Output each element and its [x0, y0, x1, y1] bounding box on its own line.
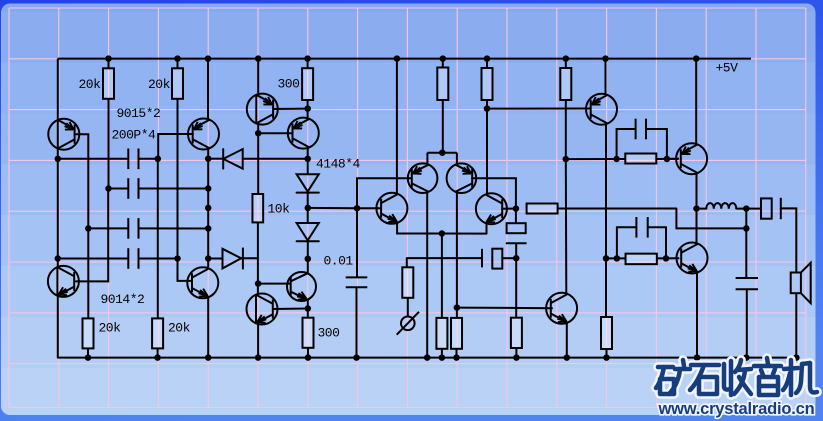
resistor R15 20k [83, 318, 94, 348]
node row1 right [155, 156, 162, 163]
capacitor C3 200P [127, 218, 129, 239]
wire bottom ground rail [58, 357, 800, 359]
wire Q10 emitter to rail [696, 272, 698, 357]
inductor L1 [697, 208, 707, 210]
wire Q1 base right and down [75, 134, 89, 228]
node output Q6 [693, 205, 700, 212]
wire Q12 base corner [178, 259, 191, 281]
wire x357 down to C001 [356, 208, 358, 277]
transistor Q6 9015 [676, 143, 707, 174]
wire apex left drop [426, 153, 428, 165]
wire Q3 collector down [257, 123, 259, 194]
transistor Q9 npn [546, 293, 577, 324]
wire R2 bottom to cap row4 [177, 99, 179, 259]
wire R4 top lead [442, 59, 444, 68]
wire QA collector down to rail [426, 192, 428, 357]
capacitor C11 output polarized [761, 198, 772, 218]
wire R6 top lead [565, 59, 567, 68]
wire output cap lead [746, 208, 761, 210]
wire R15 to rail [87, 348, 89, 357]
node Q9 rail [564, 354, 571, 361]
capacitor C1 200P [127, 149, 129, 170]
node R5 bottom node [484, 105, 491, 112]
wire node to C6 [515, 209, 517, 224]
wire cap row1 right [139, 158, 158, 160]
node diode chain mid [305, 205, 312, 212]
node top rail R5 [484, 55, 491, 62]
watermark crystalradio [656, 358, 817, 418]
node row1 left [55, 156, 62, 163]
wire x606 down to R14 [605, 258, 607, 317]
wire R5 top lead [486, 59, 488, 68]
wire x487 down to QD [486, 109, 488, 195]
node cap row2 left [105, 185, 112, 192]
wire R16 to rail [157, 348, 159, 357]
node D3 bottom node [305, 256, 312, 263]
wire x397 down to QC [396, 59, 398, 194]
node Q10 rail [694, 354, 701, 361]
resistor R10 [451, 318, 462, 349]
capacitor C7 polarized [481, 249, 483, 268]
wire x108 down to Q11 base corner [76, 189, 108, 282]
wire Rc1 right [657, 158, 679, 160]
speaker SP1 [791, 273, 801, 294]
svg-text:300: 300 [278, 76, 300, 91]
wire Q5 emitter from top [605, 59, 607, 95]
wire QB collector down [456, 192, 458, 307]
wire Q11 emitter to bottom rail corner [57, 296, 59, 358]
wire x516 down to R11 [515, 258, 517, 318]
wire x566 down to Q9 [565, 159, 568, 294]
wire row109 to Q5 base [487, 108, 590, 110]
node R9 rail [439, 354, 446, 361]
wire R10 to rail [456, 349, 458, 358]
capacitor C2 200P [127, 178, 129, 199]
node R17 top node [305, 305, 312, 312]
wire row208 to QC base [357, 207, 381, 209]
wire C5 to rail [356, 287, 358, 357]
node top rail Q5 [602, 55, 609, 62]
wire Q3 base to R3 node [273, 108, 308, 110]
wire C10 to rail [746, 289, 748, 357]
wire Q2 emitter from top rail [207, 59, 209, 120]
transistor QA pnp [408, 163, 438, 193]
wire speaker to rail [795, 293, 797, 357]
wire cap row4 left [58, 258, 129, 260]
wire C6 bottom [515, 243, 517, 258]
node R17 rail [305, 354, 312, 361]
wire output jog down [676, 209, 746, 229]
node C10 rail [743, 354, 750, 361]
wire R9 to rail [441, 349, 443, 358]
node x746 row228 [743, 225, 750, 232]
node QB QD base node [513, 205, 520, 212]
resistor R5 [482, 68, 493, 100]
capacitor C8 loop [617, 129, 636, 159]
wire C7 to node [502, 257, 516, 259]
wire D5 left lead [208, 258, 222, 260]
node top rail x397 [394, 55, 401, 62]
svg-text:10k: 10k [268, 202, 291, 217]
node top rail R4 [440, 55, 447, 62]
wire R3 top lead [307, 59, 309, 69]
resistor R1 20k [103, 68, 114, 99]
resistor R17 300 [303, 318, 314, 348]
node top rail R6 [563, 55, 570, 62]
node R6 row159 [563, 156, 570, 163]
wire QB base corner [472, 178, 516, 208]
diode D3 4148 [297, 223, 319, 240]
wire Q6 base lead [667, 158, 679, 160]
wire Q1 collector down left rail [57, 149, 59, 268]
capacitor C4 200P [127, 248, 129, 269]
svg-text:www.crystalradio.cn: www.crystalradio.cn [657, 400, 814, 418]
transistor QC driver npn [376, 193, 407, 224]
transistor Q2 9015 [188, 119, 219, 150]
wire row159 segment [566, 158, 625, 160]
diode D1 4148 [222, 149, 224, 169]
node top rail R1 [105, 55, 112, 62]
node x516 row258 [513, 255, 520, 262]
svg-text:20k: 20k [79, 77, 102, 92]
wire R6 bottom to row159 [565, 100, 567, 159]
node C5 rail [353, 354, 360, 361]
wire R1 bottom to cap row2 [108, 99, 110, 189]
wire R5 bottom [486, 100, 488, 109]
wire Q13 emitter to rail [257, 324, 259, 358]
node R11 rail [513, 354, 520, 361]
svg-text:+5V: +5V [716, 61, 739, 76]
node cap combo1 left [613, 156, 620, 163]
wire Q6 emitter from top [695, 59, 697, 145]
resistor R9 [436, 318, 447, 349]
resistor R12 [402, 267, 413, 298]
svg-text:200P*4: 200P*4 [112, 128, 157, 143]
node x606 row258 [603, 255, 610, 262]
wire R12 to phase sym [407, 298, 409, 317]
svg-text:20k: 20k [168, 321, 191, 336]
wire cap row2 right [139, 188, 209, 190]
wire cap row4 right [139, 258, 178, 260]
wire x442 down to R9 [441, 234, 443, 318]
wire Q14 base left [258, 283, 291, 285]
resistor R2 20k [172, 68, 183, 99]
node diff apex [439, 149, 446, 156]
transistor Q14 9014 [287, 272, 316, 301]
transistor Q13 9014 [247, 294, 278, 325]
node top rail Q6 [693, 55, 700, 62]
wire R13 right [657, 257, 680, 259]
wire R4 bottom to apex [442, 100, 444, 153]
wire to speaker corner [781, 208, 797, 272]
wire mid row 208 to x357 [308, 207, 357, 209]
wire Q14 emitter down [307, 300, 309, 318]
wire Q6 collector to output node [696, 173, 698, 209]
node R14 rail [603, 354, 610, 361]
diode D5 4148 [223, 249, 242, 269]
wire apex horizontal [427, 152, 457, 154]
transistor Q10 npn [677, 243, 708, 274]
wire cap row1 left [58, 158, 129, 160]
transistor Q5 9015 [586, 94, 617, 125]
wire R11 to rail [515, 348, 517, 358]
wire D3 down to Q14 [307, 241, 309, 273]
resistor R7 10k [252, 194, 263, 222]
wire Q2 base left and down [158, 134, 193, 159]
wire R17 to rail [307, 348, 309, 358]
transistor QB pnp [447, 163, 477, 193]
wire apex right drop [456, 153, 458, 164]
svg-text:300: 300 [318, 325, 340, 340]
wire cap row3 right [139, 227, 209, 229]
wire Q4 collector down [307, 148, 309, 174]
node x208 row3 [205, 225, 212, 232]
wire x357 corner to row178 [357, 178, 411, 208]
transistor Q4 9015 [288, 118, 319, 149]
wire x158 down to R16 [157, 159, 159, 319]
wire x746 down [745, 209, 747, 278]
capacitor C9 loop [617, 227, 637, 258]
node R15 bottom rail [85, 354, 92, 361]
svg-text:20k: 20k [99, 321, 122, 336]
wire Q5 collector down [605, 124, 607, 259]
transistor Q11 9014 [48, 266, 79, 297]
node cap combo2 left [614, 255, 621, 262]
node Q13 rail [255, 354, 262, 361]
node top rail Q3 [255, 55, 262, 62]
wire Q6-Q10 link [696, 209, 698, 245]
wire D5 right lead [241, 257, 258, 259]
phase symbol slashed circle [401, 317, 415, 331]
node junction cap row3 left [85, 225, 92, 232]
resistor R6 [560, 68, 571, 100]
wire R3 bottom lead [307, 100, 309, 118]
node output mid [439, 230, 446, 237]
wire R12 corner [406, 258, 408, 267]
wire +5V top rail [58, 58, 751, 60]
resistor R4 [437, 68, 448, 101]
node Q12 rail [205, 354, 212, 361]
resistor R14 [601, 317, 612, 349]
node R16 rail [154, 354, 161, 361]
node top rail R3 [304, 55, 311, 62]
wire Q9 base row [457, 307, 553, 310]
wire x88 down to R15 [87, 228, 89, 318]
node cap row4 right [174, 255, 181, 262]
wire D1 left lead [208, 158, 223, 160]
node D1 row R3col [304, 156, 311, 163]
wire D2 to D3 [307, 193, 309, 223]
wire Q13 base to R17 node [273, 308, 308, 311]
wire left rail upper segment [57, 59, 59, 120]
node x208 row2 [205, 185, 212, 192]
transistor Q3 9015 [247, 94, 278, 125]
wire Q2 collector down x208 column [207, 148, 209, 268]
svg-text:20k: 20k [148, 77, 171, 92]
transistor Q12 9014 [187, 267, 218, 298]
node Q4 base junction [255, 130, 262, 137]
diode D2 4148 [297, 174, 319, 191]
svg-text:9015*2: 9015*2 [117, 106, 161, 121]
wire Q3 emitter from top [257, 59, 259, 95]
capacitor C5 0.01 [346, 276, 368, 278]
wire R14 to rail [606, 349, 608, 358]
node top rail R2 [174, 55, 181, 62]
node Q14 base junction [255, 280, 262, 287]
wire R1 top lead [108, 59, 110, 69]
resistor R3 300 [302, 68, 313, 100]
resistor R13 horizontal [626, 254, 657, 265]
resistor R8 horizontal [527, 204, 558, 214]
node cap combo1 right [664, 156, 671, 163]
node x208 row1 [205, 155, 212, 162]
resistor R16 20k [152, 318, 163, 348]
wire D1 right lead [243, 158, 308, 160]
node R10 rail [453, 354, 460, 361]
node R10 top node [454, 304, 461, 311]
wire Q4 base left [258, 132, 292, 134]
wire R7 bottom to Q13 [257, 222, 259, 294]
wire R8 right lead [558, 208, 677, 210]
wire Q9 emitter to rail [566, 323, 568, 358]
wire cap row3 left [88, 227, 128, 229]
svg-text:4148*4: 4148*4 [316, 157, 361, 172]
node speaker rail [793, 354, 800, 361]
node Q3 base node [304, 105, 311, 112]
svg-text:0.01: 0.01 [324, 254, 354, 269]
wire row258 right segment [606, 257, 626, 259]
node top rail Q2 [205, 55, 212, 62]
node L1 right [743, 205, 750, 212]
transistor QD npn [476, 193, 507, 224]
node x208 row4 [205, 255, 212, 262]
node QA rail [424, 354, 431, 361]
capacitor C6 polarized box [507, 223, 526, 233]
wire R2 top lead [177, 59, 179, 69]
wire QD bottom corner [442, 233, 487, 235]
transistor Q1 9015 [48, 119, 79, 150]
svg-text:9014*2: 9014*2 [101, 292, 145, 307]
wire QD base [502, 208, 516, 210]
resistor Rc1 horizontal [625, 154, 656, 164]
node x208 lone [205, 205, 212, 212]
wire row258 mid [407, 257, 482, 259]
node x357 row208 [354, 205, 361, 212]
wire QD bottom [486, 223, 488, 234]
capacitor C10 [736, 277, 758, 279]
wire Q12 emitter to rail [207, 297, 209, 358]
wire cap row2 left [109, 188, 129, 190]
node row4 left [55, 255, 62, 262]
wire QC bottom corner to output node [397, 222, 442, 233]
node cap combo2 right [663, 255, 670, 262]
resistor R11 [511, 318, 522, 348]
wire R10 lead [456, 308, 458, 318]
